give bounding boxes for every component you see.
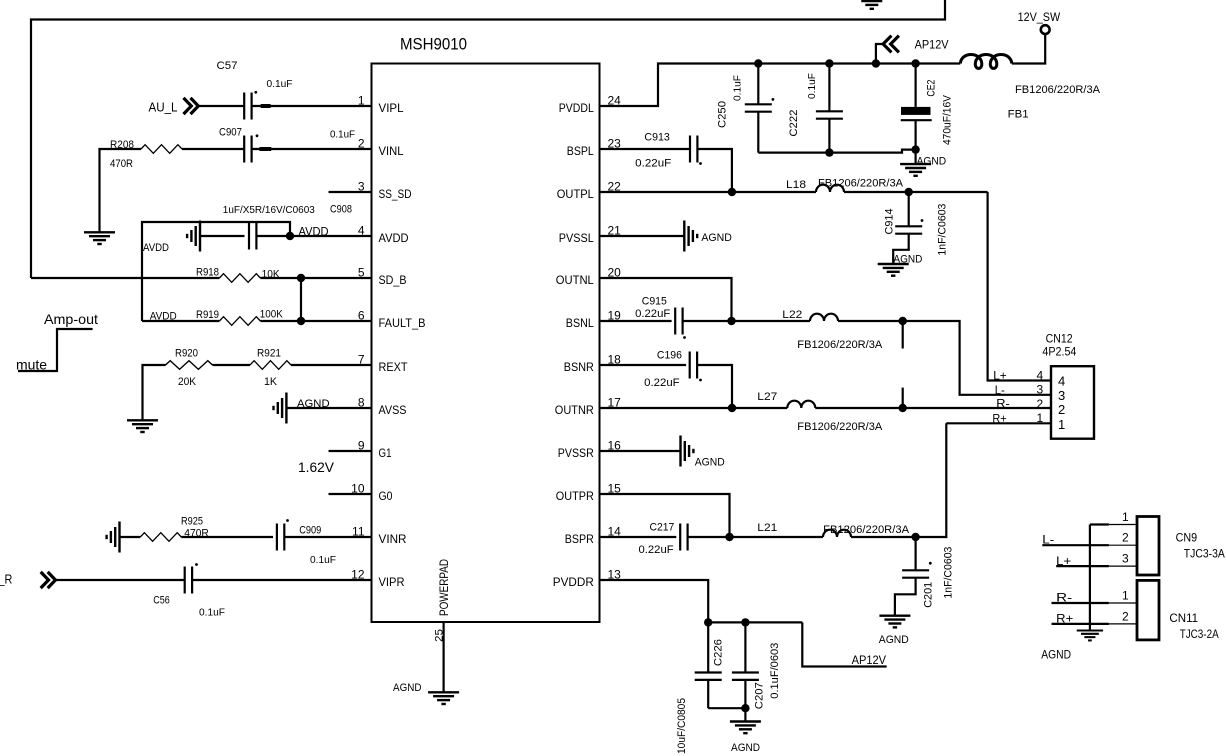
- svg-text:FB1206/220R/3A: FB1206/220R/3A: [797, 339, 883, 351]
- svg-text:L-: L-: [995, 383, 1005, 397]
- svg-text:PVSSL: PVSSL: [559, 231, 594, 245]
- svg-text:AVDD: AVDD: [143, 242, 169, 254]
- svg-text:TJC3-2A: TJC3-2A: [1180, 627, 1219, 641]
- svg-text:L22: L22: [782, 309, 802, 321]
- svg-text:CN11: CN11: [1169, 611, 1198, 625]
- svg-text:VINR: VINR: [379, 532, 407, 546]
- resistor R919: [219, 317, 260, 326]
- svg-text:3: 3: [1037, 383, 1044, 397]
- svg-text:C226: C226: [713, 639, 725, 666]
- junction node AVDD: [286, 232, 294, 240]
- ground sideways at pin 21: [684, 221, 697, 252]
- svg-text:R918: R918: [196, 267, 219, 279]
- ground sideways at C908: [187, 221, 200, 252]
- wire pin 22 OUTPL: [600, 191, 817, 193]
- svg-text:AGND: AGND: [695, 457, 725, 469]
- wire powerpad to ground: [443, 622, 445, 692]
- svg-text:470uF/16V: 470uF/16V: [942, 94, 954, 145]
- wire R920 to R921: [213, 364, 251, 366]
- svg-text:AGND: AGND: [393, 682, 422, 694]
- wire AU_R to C56: [56, 579, 185, 581]
- svg-text:1: 1: [1122, 510, 1129, 524]
- junction node FAULT_B: [297, 317, 305, 325]
- connector CN12 body: [1051, 366, 1094, 439]
- svg-text:OUTPR: OUTPR: [556, 489, 594, 503]
- svg-text:BSNR: BSNR: [564, 360, 594, 374]
- ground sideways at R925: [107, 522, 120, 553]
- svg-text:0.22uF: 0.22uF: [639, 544, 674, 556]
- junction node SD_B: [297, 274, 305, 282]
- wire AU_L to C57: [198, 105, 244, 107]
- svg-text:C217: C217: [650, 522, 675, 534]
- svg-text:R919: R919: [196, 309, 219, 321]
- capacitor C914: [908, 192, 910, 226]
- port AU_L chevron: [185, 99, 199, 113]
- wire C196 to OUTNR line: [697, 365, 732, 408]
- junction node L27 out: [899, 404, 907, 412]
- svg-text:0.22uF: 0.22uF: [644, 377, 680, 389]
- junction node CE2 bottom: [911, 145, 919, 153]
- wire C56 to pin 12: [192, 579, 371, 581]
- svg-text:0.1uF: 0.1uF: [732, 75, 744, 101]
- svg-text:0.22uF: 0.22uF: [635, 308, 670, 320]
- svg-text:C57: C57: [217, 60, 238, 72]
- capacitor C908: [249, 223, 256, 250]
- junction node C201: [911, 533, 919, 541]
- junction node OUTNR/BSNR: [728, 404, 736, 412]
- svg-text:AGND: AGND: [1041, 647, 1071, 661]
- wire Amp-out/mute step: [18, 329, 93, 371]
- svg-text:POWERPAD: POWERPAD: [437, 559, 451, 616]
- ground sideways at pin 16: [681, 436, 694, 467]
- svg-text:1.62V: 1.62V: [298, 459, 335, 475]
- junction node L22 out: [899, 317, 907, 325]
- svg-text:G1: G1: [379, 446, 392, 460]
- svg-text:0.1uF: 0.1uF: [806, 73, 818, 99]
- capacitor C217: [680, 524, 687, 551]
- junction node bottom rail: [825, 148, 833, 156]
- wire R921 to pin 7: [291, 364, 372, 366]
- svg-text:4: 4: [1058, 374, 1065, 389]
- svg-text:R925: R925: [181, 516, 203, 528]
- inductor L22: [810, 314, 838, 321]
- ground at powerpad: [428, 692, 459, 704]
- svg-text:4: 4: [1037, 369, 1044, 383]
- svg-text:R+: R+: [992, 411, 1006, 425]
- junction node OUTNL/BSNL: [727, 317, 735, 325]
- resistor R925: [140, 533, 181, 542]
- wire caps bottom rail: [708, 707, 745, 709]
- wire pin 10 G0 stub: [329, 493, 372, 495]
- wire R918 to pin 5: [260, 277, 371, 279]
- wire AP12V stub: [802, 622, 886, 666]
- pin lead 1: [1109, 602, 1137, 604]
- inductor FB1: [960, 55, 1012, 69]
- svg-text:SD_B: SD_B: [379, 273, 407, 287]
- capacitor C222: [828, 64, 830, 112]
- pin lead 2: [1109, 623, 1137, 625]
- capacitor C56: [185, 567, 192, 594]
- svg-text:0.1uF: 0.1uF: [310, 554, 336, 566]
- resistor R920: [166, 361, 213, 370]
- svg-text:AGND: AGND: [297, 398, 330, 410]
- capacitor C196: [690, 352, 697, 379]
- junction node OUTPR/BSPR: [725, 533, 733, 541]
- wire stub below L22 junction: [902, 321, 904, 349]
- wire C57 to pin 1: [252, 105, 372, 107]
- svg-text:12V_SW: 12V_SW: [1018, 10, 1061, 24]
- wire pin 17 OUTNR: [600, 407, 788, 409]
- svg-text:L+: L+: [1056, 554, 1071, 568]
- svg-text:C207: C207: [754, 682, 766, 709]
- svg-text:R-: R-: [996, 397, 1010, 411]
- svg-text:0.1uF: 0.1uF: [330, 129, 355, 141]
- svg-text:2: 2: [1058, 402, 1065, 417]
- svg-text:1nF/C0603: 1nF/C0603: [937, 204, 949, 256]
- capacitor C57: [244, 93, 251, 120]
- svg-text:C907: C907: [219, 127, 242, 139]
- ground at R208: [84, 232, 115, 244]
- capacitor CE2 electrolytic: [914, 64, 916, 107]
- inductor L27: [787, 401, 815, 408]
- wire C913 to OUTPL line: [697, 149, 732, 192]
- svg-text:AU_L: AU_L: [149, 100, 178, 115]
- ground at CN bus: [1077, 631, 1103, 641]
- wire L21 to R+ corner: [851, 423, 946, 537]
- wire pin 14 to C217: [600, 536, 677, 538]
- capacitor C907: [244, 136, 251, 163]
- svg-text:AGND: AGND: [893, 254, 922, 266]
- wire R208 to C907: [182, 148, 244, 150]
- svg-text:10uF/C0805: 10uF/C0805: [676, 698, 688, 754]
- svg-text:FB1206/220R/3A: FB1206/220R/3A: [1015, 84, 1101, 96]
- inductor L21: [823, 530, 851, 537]
- svg-text:PVDDR: PVDDR: [553, 575, 594, 589]
- wire C217 to junction: [688, 536, 823, 538]
- wire fat segment: [259, 147, 271, 151]
- wire left of R920 to ground: [143, 365, 166, 420]
- wire R208 left to ground: [100, 149, 142, 232]
- svg-text:C913: C913: [644, 132, 669, 144]
- svg-text:470R: 470R: [110, 158, 133, 170]
- wire ground bus CN9/CN11: [1089, 525, 1091, 631]
- wire CN12 pin 4 L+: [988, 192, 1051, 381]
- svg-text:AVDD: AVDD: [379, 231, 409, 245]
- resistor R921: [250, 361, 291, 370]
- svg-text:C909: C909: [299, 525, 321, 537]
- wire junction to L22: [732, 320, 811, 322]
- svg-text:C222: C222: [788, 110, 800, 137]
- svg-text:0.1uF: 0.1uF: [199, 607, 225, 619]
- svg-text:FB1206/220R/3A: FB1206/220R/3A: [818, 178, 904, 190]
- svg-text:3: 3: [1058, 388, 1065, 403]
- svg-text:2: 2: [1037, 397, 1044, 411]
- svg-text:VINL: VINL: [379, 144, 404, 158]
- svg-text:1nF/C0603: 1nF/C0603: [943, 547, 955, 599]
- wire pin 19 to C915: [600, 320, 672, 322]
- wire CE2 to ground: [914, 150, 916, 165]
- wire bottom rail of C250/C222: [758, 150, 915, 153]
- ground at R920: [127, 420, 158, 432]
- port AU_R chevron: [42, 573, 56, 587]
- svg-text:R+: R+: [1056, 611, 1073, 625]
- wire pin 15 OUTPR: [600, 494, 730, 537]
- junction node caps bottom: [741, 704, 749, 712]
- connector CN11 body: [1137, 580, 1159, 640]
- wire C909 to pin 11: [284, 536, 371, 538]
- svg-text:C201: C201: [923, 582, 935, 608]
- svg-text:3: 3: [1122, 552, 1129, 566]
- ground (clipped at top edge): [861, 1, 882, 9]
- svg-text:PVDDL: PVDDL: [559, 101, 594, 115]
- wire C907 to pin 2: [252, 148, 372, 150]
- wire L27 to CN12 R-: [815, 407, 1051, 409]
- svg-text:CN9: CN9: [1176, 531, 1198, 545]
- svg-text:CE2: CE2: [926, 80, 938, 97]
- wire CN9 pin 1: [1090, 523, 1109, 525]
- wire stub above L27 junction: [902, 388, 904, 408]
- ground at C914: [878, 264, 909, 276]
- svg-text:BSPR: BSPR: [565, 532, 594, 546]
- wire C908 to pin 4: [256, 235, 371, 237]
- svg-text:VIPR: VIPR: [379, 575, 405, 589]
- capacitor C913: [690, 136, 697, 163]
- svg-text:FB1206/220R/3A: FB1206/220R/3A: [797, 421, 883, 433]
- wire R925 to C909: [181, 536, 273, 538]
- svg-text:4P2.54: 4P2.54: [1042, 344, 1076, 358]
- wire pin 18 to C196: [600, 364, 687, 366]
- svg-text:SS_SD: SS_SD: [379, 187, 412, 201]
- svg-text:L+: L+: [993, 369, 1007, 383]
- svg-text:FB1206/220R/3A: FB1206/220R/3A: [823, 524, 910, 536]
- terminal 12V_SW circle: [1041, 25, 1050, 34]
- svg-text:100K: 100K: [260, 309, 284, 321]
- capacitor C201: [914, 537, 916, 571]
- wire CN11 pin 1 R-: [1052, 602, 1109, 604]
- svg-text:AVSS: AVSS: [379, 403, 407, 417]
- svg-text:R-: R-: [1056, 590, 1072, 604]
- junction node C207 top: [741, 618, 749, 626]
- power flag AP12V chevrons: [883, 37, 898, 51]
- wire to ground: [744, 708, 746, 721]
- svg-text:BSPL: BSPL: [567, 144, 594, 158]
- svg-text:1K: 1K: [264, 376, 278, 388]
- svg-text:C56: C56: [153, 595, 170, 607]
- svg-text:2: 2: [1122, 610, 1129, 624]
- wire L22 to L- corner: [838, 321, 1051, 395]
- wire C915 to junction: [683, 320, 732, 322]
- junction node C226 top: [704, 618, 712, 626]
- power flag AP12V wire: [876, 44, 884, 64]
- wire pin 9 G1 stub: [329, 450, 372, 452]
- capacitor C226: [707, 622, 709, 672]
- svg-text:OUTPL: OUTPL: [557, 187, 594, 201]
- svg-text:0.1uF/0603: 0.1uF/0603: [769, 643, 781, 699]
- capacitor C207: [744, 622, 746, 672]
- ground at C201: [879, 616, 910, 628]
- svg-text:L21: L21: [757, 522, 777, 534]
- svg-text:C915: C915: [642, 296, 667, 308]
- svg-text:L-: L-: [1042, 533, 1054, 547]
- ground at C226/C207: [730, 722, 761, 734]
- capacitor C250: [757, 64, 759, 105]
- wire top rail from SD_B loop: [31, 0, 945, 278]
- svg-text:TJC3-3A: TJC3-3A: [1184, 547, 1225, 561]
- junction node rail AP12V: [872, 59, 880, 67]
- svg-text:Amp-out: Amp-out: [44, 311, 98, 327]
- wire CN9 pin 3 L+: [1056, 565, 1109, 567]
- svg-text:AVDD: AVDD: [299, 225, 329, 239]
- svg-text:FAULT_B: FAULT_B: [379, 316, 426, 330]
- wire pin 13 to caps rail: [600, 580, 803, 622]
- wire pin 16 to ground: [600, 450, 681, 452]
- svg-text:C908: C908: [330, 204, 352, 216]
- wire CN9 pin 2 L-: [1042, 544, 1109, 546]
- svg-text:BSNL: BSNL: [566, 316, 594, 330]
- pin lead 1: [1109, 524, 1137, 526]
- svg-text:0.1uF: 0.1uF: [267, 78, 293, 90]
- junction node rail C222: [825, 59, 833, 67]
- resistor R208: [141, 145, 182, 154]
- junction node OUTPL/BSPL: [728, 188, 736, 196]
- svg-text:AGND: AGND: [917, 156, 947, 168]
- wire pin 3 SS_SD stub: [329, 191, 372, 193]
- pin lead 2: [1109, 544, 1137, 546]
- wire SD_B from left rail: [31, 277, 219, 279]
- wire pin 24 to rail: [600, 64, 961, 107]
- svg-text:C914: C914: [884, 209, 896, 235]
- svg-text:OUTNR: OUTNR: [555, 403, 594, 417]
- wire ground to R925: [120, 536, 141, 538]
- wire C201 to ground: [895, 578, 916, 616]
- svg-text:VIPL: VIPL: [379, 101, 404, 115]
- inductor L18: [816, 185, 844, 192]
- connector CN9 body: [1137, 517, 1159, 576]
- wire C914 to ground: [893, 234, 909, 264]
- svg-text:AP12V: AP12V: [852, 653, 886, 667]
- wire CN11 pin 2 R+: [1052, 623, 1109, 625]
- svg-text:REXT: REXT: [379, 360, 409, 374]
- wire L18 to L+ corner: [844, 191, 988, 193]
- svg-text:C196: C196: [657, 350, 682, 362]
- svg-text:1uF/X5R/16V/C0603: 1uF/X5R/16V/C0603: [223, 204, 315, 216]
- svg-text:20K: 20K: [178, 376, 197, 388]
- resistor R918: [219, 274, 260, 283]
- svg-text:AP12V: AP12V: [915, 38, 949, 52]
- svg-text:MSH9010: MSH9010: [400, 35, 467, 54]
- svg-text:AU_R: AU_R: [0, 572, 12, 587]
- svg-text:OUTNL: OUTNL: [556, 273, 594, 287]
- op-amp/amplifier IC U1 MSH9010 body: [372, 64, 600, 623]
- pin lead 3: [1109, 565, 1137, 567]
- svg-text:1: 1: [1122, 589, 1129, 603]
- svg-text:1: 1: [1058, 417, 1065, 432]
- junction node C914: [905, 188, 913, 196]
- wire ground to C908: [200, 235, 245, 237]
- capacitor C909: [277, 524, 284, 551]
- svg-text:L27: L27: [757, 391, 777, 403]
- wire FB1 to 12V_SW: [1012, 34, 1045, 64]
- wire pin 23 to C913: [600, 148, 691, 150]
- svg-text:AGND: AGND: [731, 742, 760, 754]
- svg-text:AGND: AGND: [701, 232, 732, 244]
- svg-text:PVSSR: PVSSR: [558, 446, 594, 460]
- svg-text:1: 1: [1037, 411, 1044, 425]
- wire pin 21 to ground: [600, 235, 685, 237]
- svg-text:G0: G0: [379, 489, 393, 503]
- svg-text:AGND: AGND: [879, 634, 909, 646]
- svg-text:R921: R921: [257, 348, 281, 360]
- capacitor C915: [675, 308, 682, 335]
- ground sideways at pin 8: [274, 393, 287, 424]
- junction node rail C250: [754, 59, 762, 67]
- wire R919 to pin 6: [260, 320, 371, 322]
- svg-text:mute: mute: [16, 357, 47, 373]
- ground at CE2: [900, 164, 931, 176]
- wire ground to pin 8: [286, 407, 371, 409]
- svg-text:C250: C250: [717, 101, 729, 128]
- svg-text:FB1: FB1: [1008, 109, 1029, 121]
- svg-text:L18: L18: [786, 179, 806, 191]
- svg-text:2: 2: [1122, 531, 1129, 545]
- wire pin 20 OUTNL: [600, 278, 732, 321]
- junction node rail CE2: [911, 59, 919, 67]
- wire AVDD loop: [142, 222, 290, 321]
- wire CN12 pin 1 R+: [946, 422, 1051, 424]
- svg-text:R920: R920: [175, 348, 198, 360]
- wire SD_B to FAULT_B: [300, 278, 302, 321]
- wire AVDD corner to R919: [142, 320, 219, 322]
- svg-text:0.22uF: 0.22uF: [635, 158, 671, 170]
- wire fat segment: [261, 104, 271, 108]
